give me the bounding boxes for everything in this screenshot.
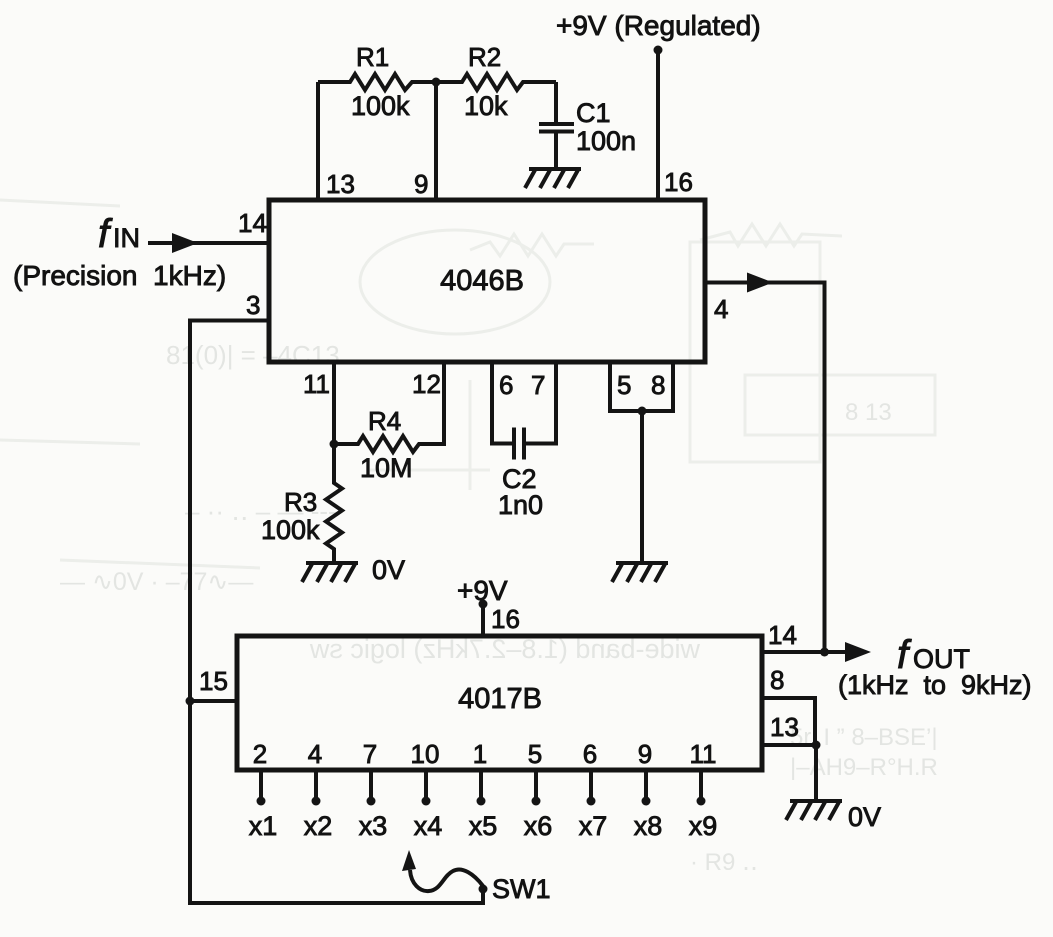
svg-text:· R9 ‥: · R9 ‥ <box>690 849 758 876</box>
svg-text:12: 12 <box>412 369 441 399</box>
svg-text:6: 6 <box>499 370 513 400</box>
svg-text:4: 4 <box>308 739 322 769</box>
svg-text:x7: x7 <box>579 811 608 841</box>
svg-text:14: 14 <box>768 620 797 650</box>
svg-text:11: 11 <box>690 739 717 769</box>
svg-text:3: 3 <box>246 290 260 320</box>
svg-text:81(0)| = ‒4C13: 81(0)| = ‒4C13 <box>166 340 340 370</box>
svg-text:4: 4 <box>714 294 728 324</box>
svg-text:— ∿0V · ‒77∿—: — ∿0V · ‒77∿— <box>60 568 253 596</box>
svg-text:100k: 100k <box>261 515 320 545</box>
svg-text:8 13: 8 13 <box>845 399 892 426</box>
svg-text:1n0: 1n0 <box>498 490 543 520</box>
svg-text:0V: 0V <box>372 555 405 585</box>
svg-text:6: 6 <box>583 739 597 769</box>
svg-text:9: 9 <box>638 739 652 769</box>
svg-text:IN: IN <box>113 223 140 253</box>
svg-text:4046B: 4046B <box>440 265 524 297</box>
svg-text:7: 7 <box>363 739 377 769</box>
svg-text:100k: 100k <box>351 91 410 121</box>
svg-text:13: 13 <box>770 712 799 742</box>
svg-text:14: 14 <box>238 208 267 238</box>
svg-text:1: 1 <box>473 739 487 769</box>
svg-text:x5: x5 <box>469 811 498 841</box>
svg-text:8: 8 <box>770 665 784 695</box>
svg-text:5: 5 <box>617 370 631 400</box>
svg-text:x2: x2 <box>304 811 333 841</box>
svg-text:x3: x3 <box>359 811 388 841</box>
svg-text:100n: 100n <box>576 126 636 156</box>
svg-text:x6: x6 <box>524 811 553 841</box>
svg-text:10k: 10k <box>464 91 508 121</box>
svg-text:R3: R3 <box>284 487 317 517</box>
svg-text:9: 9 <box>414 169 428 199</box>
svg-text:x9: x9 <box>689 811 718 841</box>
svg-text:13: 13 <box>326 169 355 199</box>
svg-text:R4: R4 <box>368 406 401 436</box>
svg-text:x1: x1 <box>249 811 278 841</box>
svg-text:(Precision 1kHz): (Precision 1kHz) <box>13 260 226 291</box>
svg-text:7: 7 <box>531 370 545 400</box>
svg-text:R1: R1 <box>356 42 389 72</box>
svg-text:C1: C1 <box>576 98 611 128</box>
svg-text:10: 10 <box>411 739 440 769</box>
svg-text:10M: 10M <box>360 453 413 483</box>
svg-text:5: 5 <box>528 739 542 769</box>
svg-text:(1kHz to 9kHz): (1kHz to 9kHz) <box>838 670 1032 700</box>
svg-text:x8: x8 <box>634 811 663 841</box>
svg-text:16: 16 <box>664 167 693 197</box>
svg-text:16: 16 <box>491 604 520 634</box>
svg-text:8: 8 <box>651 370 665 400</box>
svg-text:x4: x4 <box>414 811 443 841</box>
svg-text:15: 15 <box>199 666 228 696</box>
svg-text:|‒AH9‒R°H.R: |‒AH9‒R°H.R <box>790 754 938 781</box>
svg-text:4017B: 4017B <box>458 683 542 715</box>
svg-text:0V: 0V <box>848 802 881 832</box>
svg-text:SW1: SW1 <box>492 874 551 904</box>
svg-text:2: 2 <box>253 739 267 769</box>
svg-text:11: 11 <box>303 369 330 399</box>
svg-text:R2: R2 <box>468 42 501 72</box>
svg-text:+9V (Regulated): +9V (Regulated) <box>556 10 761 41</box>
